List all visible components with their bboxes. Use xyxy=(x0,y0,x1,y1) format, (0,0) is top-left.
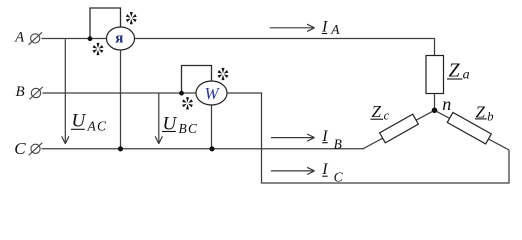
svg-text:W: W xyxy=(205,84,221,103)
svg-text:C: C xyxy=(14,139,26,158)
svg-text:я: я xyxy=(115,30,123,46)
svg-text:BC: BC xyxy=(179,121,199,136)
svg-text:c: c xyxy=(384,108,390,122)
svg-text:C: C xyxy=(334,169,344,184)
svg-text:n: n xyxy=(442,94,451,114)
svg-text:A: A xyxy=(330,22,340,37)
svg-text:B: B xyxy=(16,84,25,100)
svg-text:AC: AC xyxy=(87,118,108,133)
svg-text:a: a xyxy=(463,68,470,83)
svg-text:Z: Z xyxy=(372,102,382,121)
svg-text:U: U xyxy=(72,110,87,131)
svg-text:A: A xyxy=(14,30,24,46)
svg-text:B: B xyxy=(334,137,342,152)
svg-text:Z: Z xyxy=(449,60,461,82)
svg-text:b: b xyxy=(487,109,493,123)
